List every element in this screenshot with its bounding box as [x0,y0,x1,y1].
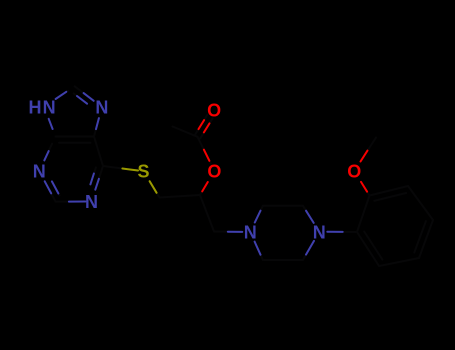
svg-text:N: N [95,98,108,118]
svg-text:O: O [207,161,221,181]
svg-text:O: O [347,162,361,182]
svg-text:N: N [244,223,257,243]
svg-text:N: N [43,97,56,117]
svg-text:H: H [29,97,42,117]
svg-text:S: S [137,162,149,182]
svg-text:N: N [313,222,326,242]
svg-text:N: N [33,162,46,182]
svg-text:N: N [85,192,98,212]
svg-text:O: O [207,100,221,120]
